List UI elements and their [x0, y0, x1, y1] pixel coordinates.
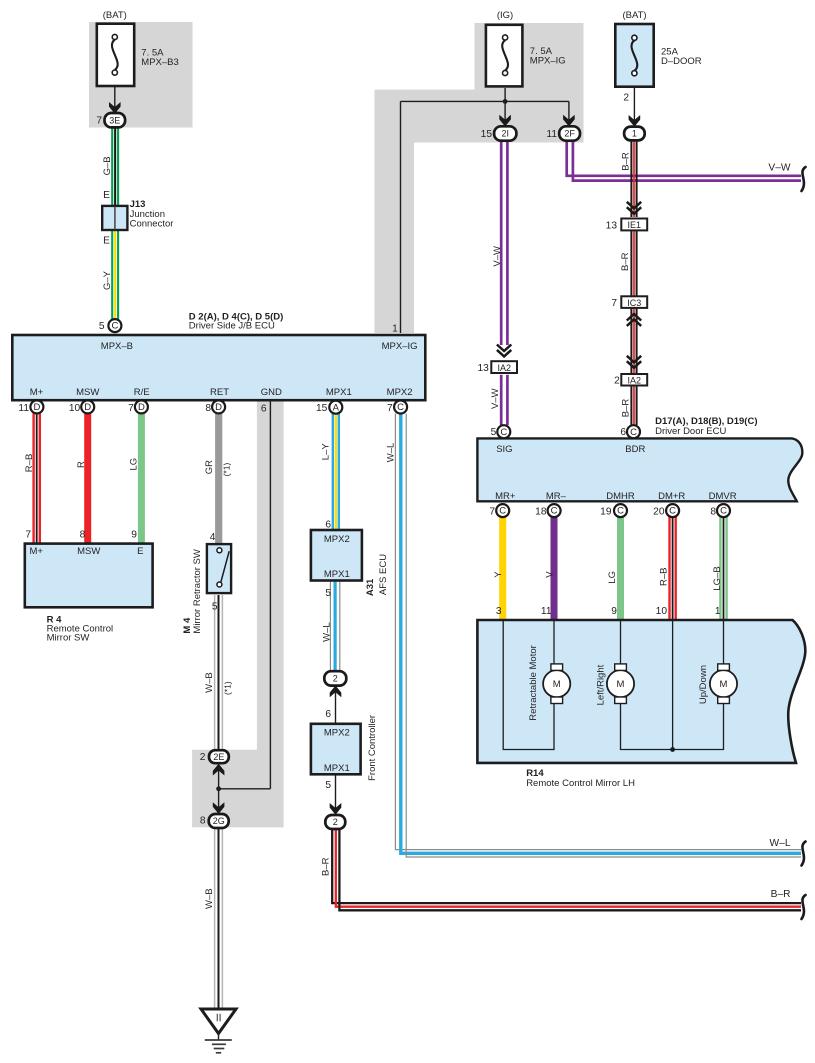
svg-text:SIG: SIG — [496, 444, 512, 455]
svg-text:10: 10 — [656, 606, 668, 617]
svg-text:M+: M+ — [30, 546, 44, 557]
svg-text:V: V — [545, 571, 556, 578]
svg-text:2: 2 — [333, 817, 338, 827]
svg-text:C: C — [630, 427, 637, 438]
svg-text:C: C — [499, 506, 506, 517]
svg-text:10: 10 — [69, 403, 81, 414]
svg-text:C: C — [397, 402, 404, 413]
svg-text:8: 8 — [710, 506, 716, 517]
svg-text:R: R — [76, 461, 87, 468]
svg-text:W–L: W–L — [321, 622, 332, 642]
svg-text:MPX1: MPX1 — [326, 387, 352, 398]
svg-text:R/E: R/E — [134, 387, 150, 398]
svg-text:A: A — [333, 402, 340, 413]
svg-text:1: 1 — [392, 324, 398, 335]
svg-text:2G: 2G — [213, 816, 225, 826]
svg-text:B–R: B–R — [621, 152, 632, 171]
svg-text:MPX–IG: MPX–IG — [530, 55, 566, 66]
svg-text:7: 7 — [128, 403, 134, 414]
svg-text:G–Y: G–Y — [102, 270, 113, 290]
svg-text:B–R: B–R — [321, 857, 332, 876]
svg-text:C: C — [720, 506, 727, 517]
svg-text:13: 13 — [606, 220, 618, 231]
svg-text:IA2: IA2 — [628, 375, 642, 385]
svg-text:LG–B: LG–B — [712, 566, 723, 590]
svg-text:DMVR: DMVR — [709, 491, 737, 502]
svg-text:LG: LG — [607, 571, 618, 584]
svg-text:M: M — [720, 679, 728, 690]
svg-text:7: 7 — [96, 116, 102, 127]
svg-text:M: M — [553, 679, 561, 690]
svg-text:MPX–B: MPX–B — [101, 341, 133, 352]
svg-text:Driver Side J/B ECU: Driver Side J/B ECU — [189, 321, 275, 332]
svg-text:Y: Y — [493, 571, 504, 578]
svg-text:(BAT): (BAT) — [622, 10, 646, 21]
svg-text:2: 2 — [200, 752, 206, 763]
svg-text:2: 2 — [614, 375, 620, 386]
svg-text:11: 11 — [546, 129, 557, 140]
svg-text:MSW: MSW — [76, 387, 99, 398]
svg-text:7: 7 — [611, 298, 617, 309]
svg-text:IE1: IE1 — [628, 220, 642, 230]
svg-text:V–W: V–W — [768, 162, 790, 173]
svg-text:(BAT): (BAT) — [103, 10, 127, 21]
svg-text:GR: GR — [204, 460, 215, 474]
svg-text:1: 1 — [715, 606, 721, 617]
svg-text:C: C — [669, 506, 676, 517]
svg-text:6: 6 — [261, 403, 267, 414]
svg-text:MPX2: MPX2 — [387, 387, 413, 398]
svg-text:A31: A31 — [365, 578, 376, 596]
svg-text:(IG): (IG) — [497, 10, 513, 21]
svg-text:E: E — [137, 546, 143, 557]
svg-text:D: D — [215, 402, 222, 413]
svg-text:5: 5 — [325, 780, 331, 791]
svg-text:2I: 2I — [501, 129, 509, 139]
svg-text:MR–: MR– — [546, 491, 567, 502]
svg-text:2: 2 — [333, 674, 338, 684]
svg-text:(*1): (*1) — [222, 681, 232, 695]
svg-text:11: 11 — [541, 606, 552, 617]
svg-text:7: 7 — [387, 403, 393, 414]
svg-text:MPX1: MPX1 — [324, 569, 350, 580]
svg-text:7: 7 — [489, 506, 495, 517]
svg-text:4: 4 — [210, 532, 216, 543]
svg-text:V–W: V–W — [490, 388, 501, 409]
svg-text:6: 6 — [325, 520, 331, 531]
svg-text:W–B: W–B — [204, 672, 215, 693]
svg-text:MPX–IG: MPX–IG — [382, 341, 418, 352]
svg-text:IC3: IC3 — [627, 298, 641, 308]
svg-text:5: 5 — [491, 427, 497, 438]
svg-text:W–B: W–B — [204, 888, 215, 909]
svg-text:13: 13 — [477, 363, 489, 374]
svg-text:GND: GND — [261, 387, 282, 398]
svg-text:W–L: W–L — [770, 838, 791, 849]
svg-text:MR+: MR+ — [495, 491, 516, 502]
svg-text:E: E — [103, 190, 110, 201]
svg-text:MPX1: MPX1 — [324, 763, 350, 774]
svg-text:C: C — [500, 427, 507, 438]
svg-text:19: 19 — [600, 506, 612, 517]
svg-text:11: 11 — [18, 403, 29, 414]
svg-text:2E: 2E — [213, 752, 224, 762]
svg-text:D: D — [33, 402, 40, 413]
svg-text:15: 15 — [481, 129, 493, 140]
svg-text:Remote Control Mirror LH: Remote Control Mirror LH — [526, 778, 635, 789]
svg-text:2F: 2F — [564, 129, 575, 139]
svg-text:Retractable Motor: Retractable Motor — [528, 645, 539, 721]
svg-text:5: 5 — [99, 321, 105, 332]
svg-text:C: C — [551, 506, 558, 517]
svg-text:B–R: B–R — [621, 399, 632, 418]
svg-text:E: E — [103, 235, 110, 246]
svg-text:7: 7 — [25, 529, 31, 540]
svg-text:MPX–B3: MPX–B3 — [141, 57, 179, 68]
svg-text:Up/Down: Up/Down — [698, 665, 709, 704]
svg-text:3E: 3E — [109, 115, 120, 125]
svg-text:(*1): (*1) — [221, 463, 231, 477]
svg-text:AFS ECU: AFS ECU — [378, 554, 389, 595]
svg-text:Mirror SW: Mirror SW — [47, 632, 90, 643]
svg-text:Driver Door ECU: Driver Door ECU — [655, 426, 726, 437]
svg-text:20: 20 — [653, 506, 665, 517]
svg-text:8: 8 — [205, 403, 211, 414]
svg-text:DM+R: DM+R — [658, 491, 685, 502]
svg-text:MSW: MSW — [77, 546, 100, 557]
svg-text:8: 8 — [80, 529, 86, 540]
svg-text:C: C — [111, 321, 118, 332]
svg-text:C: C — [617, 506, 624, 517]
svg-text:Connector: Connector — [130, 218, 174, 229]
svg-text:D: D — [84, 402, 91, 413]
svg-text:BDR: BDR — [625, 444, 645, 455]
svg-text:DMHR: DMHR — [606, 491, 635, 502]
svg-text:LG: LG — [129, 458, 140, 471]
svg-text:Left/Right: Left/Right — [596, 664, 607, 705]
svg-text:3: 3 — [496, 606, 502, 617]
svg-text:W–L: W–L — [386, 443, 397, 463]
svg-text:Front Controller: Front Controller — [367, 715, 378, 781]
svg-text:G–B: G–B — [102, 156, 113, 175]
svg-text:1: 1 — [632, 129, 637, 139]
svg-text:9: 9 — [131, 529, 137, 540]
svg-text:L–Y: L–Y — [320, 443, 331, 461]
svg-text:6: 6 — [620, 427, 626, 438]
svg-text:5: 5 — [325, 588, 331, 599]
svg-text:R–B: R–B — [24, 454, 35, 472]
svg-text:D: D — [138, 402, 145, 413]
svg-text:MPX2: MPX2 — [324, 728, 350, 739]
svg-text:8: 8 — [200, 815, 206, 826]
svg-text:B–R: B–R — [620, 252, 631, 271]
svg-text:D–DOOR: D–DOOR — [661, 56, 702, 67]
svg-text:MPX2: MPX2 — [324, 534, 350, 545]
svg-text:18: 18 — [535, 506, 547, 517]
svg-text:RET: RET — [210, 387, 229, 398]
svg-text:IA2: IA2 — [497, 363, 511, 373]
svg-text:5: 5 — [212, 602, 218, 613]
svg-text:6: 6 — [325, 709, 331, 720]
svg-text:Mirror Retractor SW: Mirror Retractor SW — [192, 549, 203, 633]
svg-text:9: 9 — [611, 606, 617, 617]
svg-text:M: M — [617, 679, 625, 690]
svg-text:15: 15 — [316, 403, 328, 414]
svg-text:2: 2 — [623, 93, 629, 104]
svg-text:V–W: V–W — [492, 246, 503, 267]
svg-text:M+: M+ — [30, 387, 44, 398]
svg-text:R–B: R–B — [658, 568, 669, 586]
svg-text:B–R: B–R — [771, 889, 791, 900]
